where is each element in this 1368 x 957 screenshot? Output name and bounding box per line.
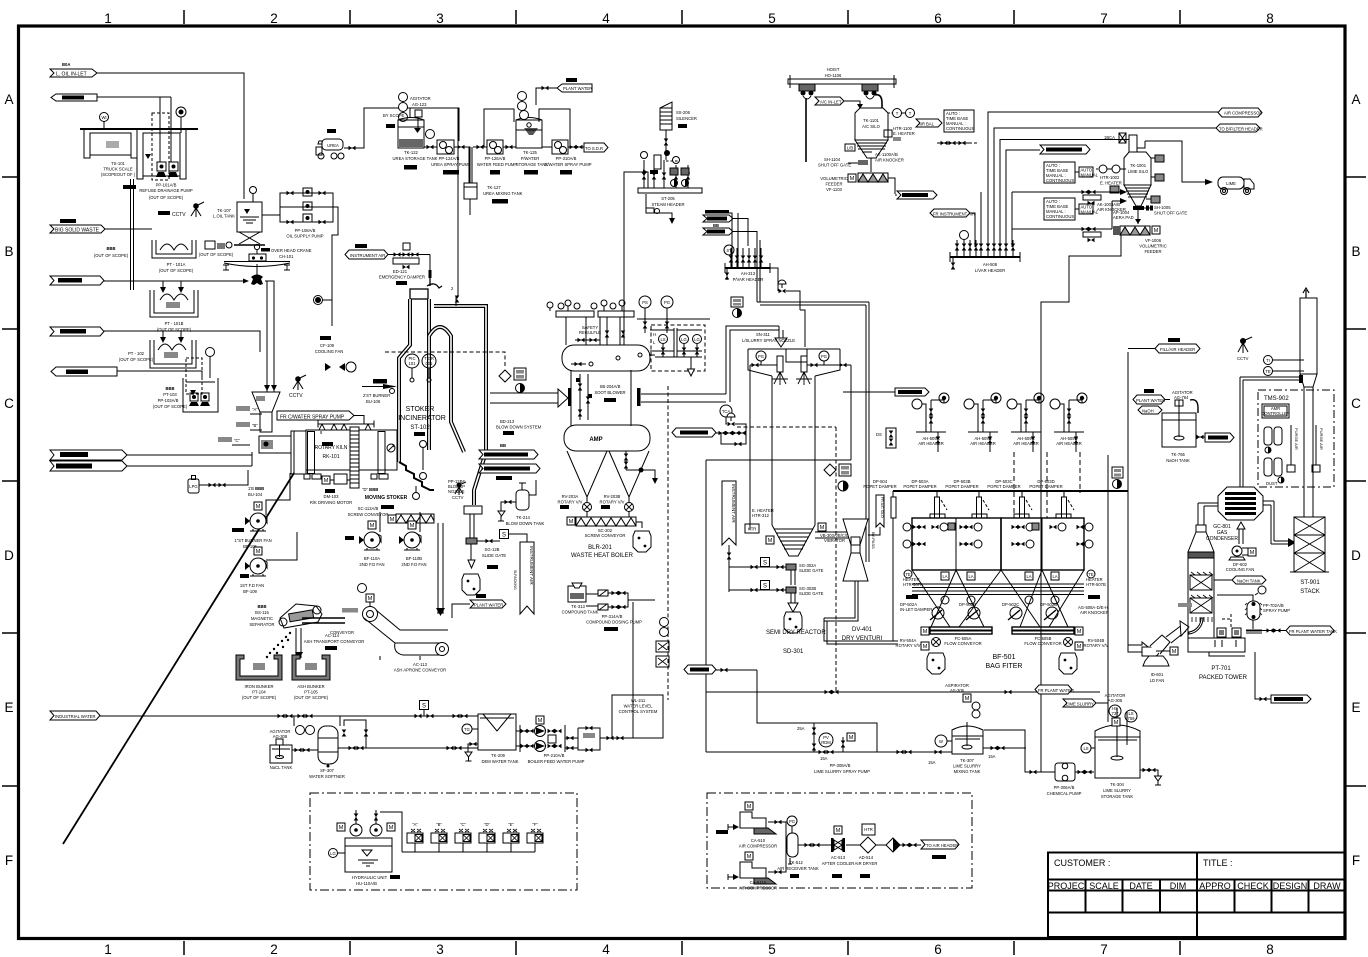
manifold instrument: [1112, 467, 1123, 489]
svg-text:DIM: DIM: [1170, 881, 1187, 891]
svg-text:WL-211: WL-211: [631, 698, 646, 703]
svg-text:ST: ST: [726, 248, 732, 253]
SDR body: [772, 376, 815, 556]
svg-text:CONTINUOUS: CONTINUOUS: [946, 126, 974, 131]
svg-text:STORAGE TANK: STORAGE TANK: [1101, 794, 1134, 799]
venturi outlet duct: [824, 581, 898, 644]
svg-text:PP-308A/B: PP-308A/B: [830, 763, 851, 768]
svg-text:AC-513: AC-513: [831, 855, 846, 860]
svg-text:FEEDER: FEEDER: [1145, 249, 1162, 254]
air header AH-509D: [1050, 393, 1087, 452]
level gauges LS LG: [649, 328, 702, 376]
SDR labels: [766, 630, 826, 655]
svg-text:AG-764: AG-764: [1174, 395, 1189, 400]
cooling fan DF-602: [1226, 522, 1256, 572]
tower top duct to condenser: [1198, 503, 1218, 525]
svg-text:BS-115: BS-115: [255, 610, 269, 615]
svg-text:(OUT OF SCOPE): (OUT OF SCOPE): [94, 253, 129, 258]
mud drum: [564, 425, 650, 451]
dashed signal line furnace: [385, 352, 505, 368]
svg-text:CONVEYOR: CONVEYOR: [330, 630, 354, 635]
svg-text:FR PLANT WATER: FR PLANT WATER: [1038, 688, 1074, 693]
svg-text:"D": "D": [484, 822, 491, 827]
long lime water line: [706, 690, 1100, 695]
svg-text:LIME: LIME: [1226, 181, 1236, 186]
truck scale pit TS-101: [80, 129, 198, 179]
svg-text:BAG FITER: BAG FITER: [986, 663, 1023, 670]
svg-text:PURGE AIR: PURGE AIR: [1319, 428, 1324, 450]
svg-text:FR C/WATER SPRAY PUMP: FR C/WATER SPRAY PUMP: [280, 415, 345, 421]
svg-text:RDM: RDM: [821, 740, 831, 745]
svg-text:AH-508: AH-508: [983, 262, 998, 267]
svg-text:LA: LA: [968, 574, 973, 579]
svg-text:DRAW: DRAW: [1313, 881, 1341, 891]
svg-text:SB-204A/B: SB-204A/B: [600, 384, 621, 389]
stack TI TE instruments: [1264, 356, 1305, 376]
svg-text:WI: WI: [101, 115, 106, 120]
svg-text:TK-214: TK-214: [516, 515, 530, 520]
instrument air banner furnace: [509, 534, 534, 614]
instrument TICR-001: [422, 354, 436, 382]
svg-text:EMERGENCY DAMPER: EMERGENCY DAMPER: [379, 275, 425, 280]
air knocker AK-1100A/B: [862, 152, 904, 163]
spray pumps PP-702A/B: [1217, 586, 1290, 630]
svg-text:TK-307: TK-307: [960, 758, 974, 763]
svg-text:AC-113: AC-113: [413, 662, 428, 667]
svg-text:POPET DAMPER: POPET DAMPER: [1029, 484, 1062, 489]
level instrument dark circle: [176, 107, 186, 133]
silencer SS-206: [660, 102, 697, 160]
svg-text:PP-126A/B: PP-126A/B: [485, 156, 506, 161]
svg-text:SH-1104: SH-1104: [824, 157, 841, 162]
svg-text:"C": "C": [460, 822, 467, 827]
svg-text:SC-112A/B: SC-112A/B: [358, 506, 379, 511]
svg-text:2ND F.D FAN: 2ND F.D FAN: [359, 562, 384, 567]
dem water tank TK-209: [462, 714, 519, 764]
svg-text:AMP: AMP: [589, 437, 602, 443]
svg-text:IRON BUNKER: IRON BUNKER: [244, 684, 273, 689]
blow down tank TK-214: [498, 480, 545, 526]
svg-text:LIME SILO: LIME SILO: [1128, 169, 1149, 174]
svg-text:PG: PG: [821, 354, 827, 359]
auto time base box 1: [1044, 162, 1099, 183]
svg-text:"B": "B": [252, 423, 258, 428]
bag house module 1: [912, 514, 1001, 570]
svg-text:MANUAL: MANUAL: [1081, 210, 1099, 215]
boiler casing: [571, 370, 631, 426]
svg-text:B0A: B0A: [62, 62, 70, 67]
agitator AG-308 + NaCL tank: [270, 729, 293, 770]
ash chute to apron conveyor: [436, 523, 445, 616]
pump PP-126A/B water feed: [473, 140, 517, 175]
flag drain out left: [51, 367, 117, 376]
spray nozzle label SN-311: [742, 332, 795, 343]
svg-text:AS-306: AS-306: [950, 688, 965, 693]
svg-text:TO AIR HEADER: TO AIR HEADER: [926, 843, 958, 848]
svg-text:C/WATER SPRAY PUMP: C/WATER SPRAY PUMP: [544, 162, 591, 167]
refuse pumps PP-101A/B: [123, 97, 193, 200]
auto time base box 2: [1044, 198, 1099, 220]
svg-text:CONTINUOUS: CONTINUOUS: [1046, 178, 1074, 183]
bag house module 2: [1001, 514, 1084, 570]
svg-text:PLANT WATER: PLANT WATER: [474, 603, 503, 608]
air dryer AD-514: [846, 824, 877, 878]
long diagonal leader line: [63, 473, 294, 844]
svg-text:ROTARY V/V: ROTARY V/V: [600, 500, 625, 505]
TK-107 L.OIL tank: [213, 187, 265, 246]
SDR outlet to venturi: [815, 532, 853, 538]
tank TK-122 urea storage: [383, 113, 438, 170]
flue duct boiler to SDR: [726, 326, 787, 402]
svg-text:TK-209: TK-209: [491, 753, 505, 758]
frame column ticks bottom: [184, 941, 1180, 955]
volumetric feeder VF-1103: [820, 173, 895, 194]
instr bracket DS: [876, 428, 896, 448]
svg-text:RV-203B: RV-203B: [604, 494, 621, 499]
NaOH tank TK-765: [1133, 389, 1234, 463]
hoist trolley 2: [862, 84, 878, 99]
svg-text:PP-310A/B: PP-310A/B: [556, 156, 577, 161]
dashed boundary line left: [667, 386, 669, 700]
svg-text:NaOH: NaOH: [1142, 409, 1154, 414]
svg-text:CONDENSER: CONDENSER: [1206, 536, 1238, 542]
svg-text:AFTER COOLER: AFTER COOLER: [822, 861, 855, 866]
leachate pumps PP-103A/B pit: [153, 348, 218, 413]
svg-text:2ND F.D FAN: 2ND F.D FAN: [401, 562, 426, 567]
pump PP-124A/B urea spray: [424, 140, 471, 175]
svg-text:BD-213: BD-213: [500, 419, 515, 424]
svg-text:ASH APRONE CONVEYOR: ASH APRONE CONVEYOR: [394, 668, 446, 673]
oil supply pump loop PP-108A/B: [262, 188, 333, 239]
svg-text:COOLING FAN: COOLING FAN: [315, 349, 344, 354]
flag TO AIR HEADER: [921, 840, 959, 859]
pit PT-101B: [150, 290, 198, 332]
svg-text:NaOH TANK: NaOH TANK: [1166, 458, 1190, 463]
CCTV kiln: [289, 375, 306, 399]
hydraulic cylinders A-F: [380, 812, 543, 852]
air filter: [876, 838, 921, 852]
wire waste to kiln hopper: [264, 281, 277, 392]
svg-text:INDUSTRIAL WATER: INDUSTRIAL WATER: [55, 714, 96, 719]
flags waste oil feed lines: [50, 450, 252, 471]
svg-text:CA-510: CA-510: [751, 838, 766, 843]
svg-text:SF-307: SF-307: [320, 768, 334, 773]
flag AIR COMPRESSOR: [1218, 108, 1262, 117]
silo level instruments: [888, 109, 915, 118]
svg-text:BU-104: BU-104: [248, 492, 263, 497]
fans BF-110A BF-110B: [345, 512, 427, 567]
svg-text:STEAM HEADER: STEAM HEADER: [651, 202, 684, 207]
svg-text:AIR: AIR: [918, 122, 925, 127]
svg-text:LS: LS: [1083, 746, 1088, 751]
svg-text:PT-105: PT-105: [304, 690, 318, 695]
feedwater discharge piping: [565, 602, 633, 752]
svg-text:LA: LA: [1052, 574, 1057, 579]
svg-text:TK-765: TK-765: [1171, 452, 1185, 457]
svg-text:2: 2: [270, 11, 278, 26]
burner fan BF-105: [232, 473, 290, 549]
svg-text:REGULFLE: REGULFLE: [579, 330, 601, 335]
lime screw feeder VF-1006: [1113, 210, 1167, 254]
svg-text:BLOW DOWN TANK: BLOW DOWN TANK: [506, 521, 545, 526]
ash apron conveyor AC-113: [358, 584, 449, 673]
svg-text:E. HEATER: E. HEATER: [893, 131, 915, 136]
wire pit drain down: [131, 179, 134, 290]
stack ST-901: [1290, 288, 1329, 595]
PS PG gauges: [637, 296, 710, 333]
svg-text:PP-101A/B: PP-101A/B: [156, 183, 177, 188]
svg-text:AIR HEADER: AIR HEADER: [970, 441, 996, 446]
svg-text:AIR RECEIVER TANK: AIR RECEIVER TANK: [777, 866, 819, 871]
svg-text:BBB: BBB: [106, 246, 115, 251]
chemical pumps PP-306A/B: [984, 720, 1094, 796]
svg-text:CUSTOMER :: CUSTOMER :: [1054, 858, 1110, 868]
outlet duct to fan: [1128, 352, 1150, 655]
svg-text:AIR COMPRESSOR: AIR COMPRESSOR: [1224, 111, 1262, 116]
svg-text:PP-306A/B: PP-306A/B: [1054, 785, 1075, 790]
heater HTR-1002: [1096, 165, 1126, 193]
hoist HO-1106: [788, 67, 896, 88]
svg-text:SEMI DRY REACTOR: SEMI DRY REACTOR: [766, 630, 826, 636]
svg-text:BAL: BAL: [926, 122, 935, 127]
SDR ash pot: [784, 612, 802, 633]
frame row ticks left: [2, 177, 18, 786]
svg-text:LG: LG: [330, 851, 336, 856]
out of scope crusher note: [94, 241, 234, 258]
air header AH-509C: [1007, 393, 1044, 452]
flag TO QUENCH NOZZLE: [703, 210, 748, 246]
LB box: [845, 144, 855, 151]
flag waste feed B: [50, 276, 104, 285]
hydraulic pumps unit HU-110A/B: [329, 810, 401, 886]
FD fan BF-109: [240, 532, 297, 594]
lime silo TK-1001: [1124, 135, 1151, 206]
5% NaOH label: [1178, 603, 1192, 607]
svg-text:VOLUMETRIC: VOLUMETRIC: [820, 176, 847, 181]
svg-text:OVER HEAD CRANE: OVER HEAD CRANE: [271, 248, 312, 253]
slide gate SG-302B: [748, 581, 824, 597]
flag INSTRUMENT AIR (ED-121): [345, 244, 388, 259]
packed tower PT-701: [1188, 525, 1248, 681]
grab bucket: [251, 264, 263, 285]
rotary kiln RK-101: [304, 427, 397, 488]
svg-text:"A": "A": [252, 407, 258, 412]
svg-text:UREA STORAGE TANK: UREA STORAGE TANK: [393, 156, 438, 161]
svg-text:HYDRAULIC UNIT: HYDRAULIC UNIT: [352, 875, 388, 880]
svg-text:AIR HEADER: AIR HEADER: [1056, 441, 1082, 446]
svg-text:AG-305: AG-305: [1108, 698, 1123, 703]
svg-text:B: B: [1351, 244, 1360, 259]
lime slurry storage tank TK-304: [1081, 708, 1162, 799]
svg-text:SLIDE GATE: SLIDE GATE: [799, 568, 824, 573]
svg-text:POPET DAMPER: POPET DAMPER: [903, 484, 936, 489]
svg-text:TI: TI: [1266, 358, 1270, 363]
air header AH-509A: [912, 393, 949, 452]
svg-text:DUST: DUST: [1266, 481, 1278, 486]
svg-text:PT - 102: PT - 102: [128, 351, 145, 356]
svg-text:F: F: [1352, 853, 1360, 868]
tower instruments boxes: [1217, 614, 1262, 637]
svg-text:15A: 15A: [928, 760, 936, 765]
L/VAR header AH-508: [950, 230, 1020, 273]
svg-text:TITLE :: TITLE :: [1203, 858, 1233, 868]
boiler hoppers: [567, 451, 649, 503]
recirculation loops: [484, 109, 570, 147]
svg-text:CH-101: CH-101: [279, 254, 294, 259]
weigh instrument circle: [100, 113, 109, 130]
svg-text:SHUT OFF GATE: SHUT OFF GATE: [818, 163, 851, 168]
svg-text:HTR-507B: HTR-507B: [1086, 582, 1106, 587]
svg-text:A: A: [4, 92, 13, 107]
svg-text:5: 5: [768, 11, 776, 26]
svg-text:SLIDE GATE: SLIDE GATE: [482, 553, 507, 558]
TMS-902 analyser cabinet: [1258, 390, 1334, 487]
svg-text:SS-206: SS-206: [676, 110, 691, 115]
svg-text:UREA MIXING TANK: UREA MIXING TANK: [483, 191, 523, 196]
steam header ST-205: [638, 150, 702, 224]
svg-text:FR PLANT WATER TANK: FR PLANT WATER TANK: [1289, 629, 1337, 634]
svg-text:6: 6: [934, 11, 942, 26]
svg-text:AGITATOR: AGITATOR: [410, 96, 431, 101]
svg-text:BB: BB: [500, 443, 506, 448]
poppet damper stems: [891, 491, 1074, 518]
wire drain: [117, 371, 202, 378]
agitator AG-123: [399, 93, 431, 129]
svg-text:AIR KNOCKER: AIR KNOCKER: [1080, 610, 1109, 615]
flag AIR BALANCE: [916, 119, 942, 127]
svg-text:COOLING FAN: COOLING FAN: [1226, 567, 1255, 572]
main steam riser from drum: [624, 170, 648, 346]
flag waste feed C: [50, 327, 104, 336]
svg-text:PP-210A/B: PP-210A/B: [544, 753, 565, 758]
svg-text:BIG SOLID WASTE: BIG SOLID WASTE: [55, 228, 100, 234]
svg-text:"C": "C": [234, 438, 241, 443]
svg-text:HTR-507A: HTR-507A: [903, 582, 923, 587]
svg-text:STOKER: STOKER: [406, 406, 435, 413]
mixing tank TK-127: [464, 183, 523, 204]
svg-text:AIR KNOCKER: AIR KNOCKER: [875, 158, 904, 163]
svg-text:T: T: [909, 111, 912, 116]
flue duct furnace to boiler: [490, 388, 572, 407]
bag filter label: [986, 654, 1023, 670]
svg-text:SLPACKING: SLPACKING: [513, 570, 517, 590]
svg-text:DESIGN: DESIGN: [1273, 881, 1308, 891]
svg-text:MAGNETIC: MAGNETIC: [251, 616, 273, 621]
flag C/WATER PUMP: [684, 665, 736, 674]
svg-text:MOVING STOKER: MOVING STOKER: [365, 495, 408, 501]
flow conveyor FC-505A: [921, 627, 992, 646]
flow conveyor FC-505B: [1012, 627, 1083, 646]
kiln drive DM-103: [310, 474, 352, 505]
svg-text:PG: PG: [758, 354, 764, 359]
boiler blowdown valves: [624, 451, 658, 484]
P/VAR riser: [714, 213, 738, 268]
svg-text:F: F: [5, 853, 13, 868]
svg-text:CCTV: CCTV: [452, 495, 464, 500]
slurry feed riser to guns: [706, 365, 851, 692]
silo vent filter: [1104, 133, 1126, 143]
svg-text:TS-101: TS-101: [111, 161, 125, 166]
burner housing BU-104: [259, 436, 291, 453]
svg-text:TO B/FILTER HEADER: TO B/FILTER HEADER: [1219, 127, 1263, 132]
svg-text:E. HEATER: E. HEATER: [1100, 181, 1122, 186]
svg-text:RK-101: RK-101: [323, 454, 340, 460]
ED-121 valve manifold: [379, 243, 432, 285]
svg-text:001: 001: [426, 361, 434, 366]
clean gas outlet manifold: [893, 491, 1128, 641]
E heater HTR-312: [745, 508, 849, 544]
magnetic separator BS-115: [249, 604, 322, 628]
svg-text:PG: PG: [664, 300, 670, 305]
svg-text:AIR HEADER: AIR HEADER: [1013, 441, 1039, 446]
svg-text:"D" BBB: "D" BBB: [362, 487, 378, 492]
flag FR PLANT WATER bottom: [1035, 685, 1074, 694]
svg-text:7: 7: [1100, 11, 1108, 26]
svg-text:VIBRATOR: VIBRATOR: [824, 538, 845, 543]
svg-text:CONTROL SYSTEM: CONTROL SYSTEM: [619, 709, 658, 714]
LPG bottle: [188, 476, 199, 494]
urea injection nozzle: [451, 286, 459, 306]
wire waste feed: [104, 279, 249, 294]
svg-text:SG-12B: SG-12B: [485, 547, 500, 552]
cooling fan CF-109: [315, 336, 356, 372]
svg-text:(OUT OF SCOPE): (OUT OF SCOPE): [199, 252, 234, 257]
wire LPG to burner: [199, 470, 248, 487]
svg-text:(OUT OF SCOPE): (OUT OF SCOPE): [294, 695, 329, 700]
svg-text:BB: BB: [713, 223, 719, 228]
svg-text:"B": "B": [436, 822, 442, 827]
pit PT-102: [119, 340, 196, 368]
svg-text:TE: TE: [1265, 369, 1271, 374]
safety valve station: [575, 325, 601, 342]
svg-text:BOILER FEED WATER PUMP: BOILER FEED WATER PUMP: [528, 759, 585, 764]
flag FILL/WATER PUMP: [672, 428, 746, 446]
air header AH-509B: [964, 393, 1001, 452]
svg-text:DS: DS: [876, 432, 882, 437]
svg-text:P/VAR HEADER: P/VAR HEADER: [733, 277, 764, 282]
svg-text:HTR-312: HTR-312: [752, 513, 770, 518]
svg-text:3: 3: [436, 11, 444, 26]
furnace labels: [398, 406, 446, 436]
svg-text:PT-104: PT-104: [252, 690, 266, 695]
frame row ticks right: [1346, 177, 1366, 786]
boiler ash pot: [633, 531, 651, 552]
svg-text:A: A: [1351, 92, 1360, 107]
svg-text:"A": "A": [412, 822, 418, 827]
svg-text:CHECK: CHECK: [1237, 881, 1269, 891]
svg-text:PS: PS: [642, 300, 648, 305]
lime silo fill line from trucks: [1119, 140, 1213, 186]
svg-text:INSTRUMENT AIR: INSTRUMENT AIR: [731, 484, 736, 523]
svg-text:(SCOPEOUT OF ): (SCOPEOUT OF ): [101, 172, 136, 177]
svg-text:NaOH TANK: NaOH TANK: [1237, 579, 1261, 584]
svg-text:OIL SUPPLY PUMP: OIL SUPPLY PUMP: [286, 234, 323, 239]
title block: [1048, 853, 1346, 938]
boiler outlet duct: [637, 388, 726, 406]
water level control WL-211: [612, 618, 669, 739]
svg-text:L. OIL IN-LET: L. OIL IN-LET: [56, 72, 87, 78]
svg-text:FILL/AIR HEADER: FILL/AIR HEADER: [1160, 347, 1195, 352]
svg-text:TG: TG: [464, 727, 470, 732]
steam drum: [562, 345, 650, 371]
svg-text:1ST F.D FAN: 1ST F.D FAN: [240, 583, 264, 588]
svg-text:LD FAN: LD FAN: [1150, 678, 1165, 683]
air receiver TK-512: [768, 816, 819, 878]
air knocker manifold AK-1003: [1012, 189, 1127, 247]
wire urea injection down: [458, 108, 472, 296]
svg-text:ED-121: ED-121: [393, 269, 408, 274]
condenser outlet to stack: [1263, 501, 1296, 547]
